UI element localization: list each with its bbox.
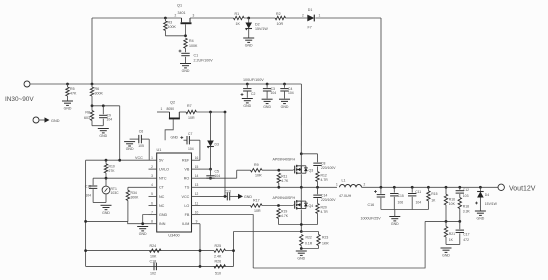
capacitor C5 104: [206, 169, 220, 179]
node ILIM rail lower: [199, 265, 202, 268]
svg-text:4.7R: 4.7R: [321, 210, 329, 214]
IC U1 body: [157, 148, 192, 238]
wire TS switch node: [200, 186, 337, 188]
svg-text:R20: R20: [321, 206, 327, 210]
svg-text:10R: 10R: [188, 116, 195, 120]
ground: [441, 248, 452, 258]
mosfet Q3 AP09N40SFH: [273, 154, 314, 174]
svg-text:Vout12V: Vout12V: [509, 185, 536, 192]
svg-text:Q2: Q2: [170, 100, 175, 104]
svg-text:103C: 103C: [111, 191, 120, 195]
svg-text:D1: D1: [308, 8, 313, 12]
resistor R8 603: [84, 106, 94, 126]
svg-text:C16: C16: [368, 203, 375, 207]
svg-text:R15: R15: [431, 192, 437, 196]
svg-text:R2: R2: [276, 12, 281, 16]
transistor Q1: [175, 4, 195, 36]
svg-text:R19: R19: [281, 210, 287, 214]
wire top-left drop to input rail: [91, 18, 93, 84]
svg-text:3.3K: 3.3K: [463, 209, 471, 213]
svg-text:C6: C6: [139, 130, 144, 134]
svg-text:7: 7: [151, 210, 153, 214]
wire vertical B Q2 to VCC pin: [224, 112, 226, 196]
svg-text:10K: 10K: [150, 255, 157, 259]
svg-text:UVLO: UVLO: [159, 168, 169, 172]
capacitor C7 104: [170, 132, 199, 151]
resistor R24 10K: [150, 244, 162, 259]
svg-text:R1: R1: [235, 12, 240, 16]
svg-text:C11: C11: [415, 190, 421, 194]
node vertical B bottom: [224, 195, 227, 198]
wire divider node: [425, 220, 461, 223]
resistor R20 4.7R: [316, 204, 328, 225]
svg-text:R3: R3: [168, 20, 173, 24]
svg-text:F7: F7: [308, 26, 312, 30]
capacitor C6 105: [130, 130, 150, 161]
transistor Q2 8050: [157, 100, 180, 140]
wire output rail: [381, 186, 498, 188]
resistor R22 0.1R: [300, 235, 313, 249]
svg-text:INN: INN: [159, 222, 166, 226]
wire Q2 emitter to R7: [179, 111, 186, 113]
wire ILIM drop: [199, 224, 201, 267]
svg-text:GND: GND: [139, 232, 147, 236]
wire Q4 source: [300, 210, 302, 232]
svg-text:15V/1W: 15V/1W: [485, 202, 498, 206]
svg-text:10R: 10R: [255, 174, 262, 178]
node R19 top: [277, 204, 280, 207]
resistor R1 1K: [234, 12, 245, 26]
resistor R5 47K: [66, 84, 77, 101]
svg-text:10: 10: [195, 210, 199, 214]
svg-text:104: 104: [107, 118, 113, 122]
svg-text:NC: NC: [159, 195, 165, 199]
wire input rail: [30, 83, 301, 85]
svg-text:GND: GND: [391, 222, 399, 226]
wire right vertical to output node: [380, 18, 382, 187]
svg-text:13: 13: [195, 183, 199, 187]
svg-text:220/100V: 220/100V: [321, 198, 336, 202]
svg-text:R8: R8: [85, 111, 90, 115]
svg-text:R11: R11: [281, 174, 287, 178]
svg-text:11: 11: [195, 201, 199, 205]
resistor R7 10R: [186, 104, 196, 120]
svg-text:5V: 5V: [159, 159, 164, 163]
wire current sense: [234, 231, 302, 233]
capacitor C10 104: [85, 178, 98, 202]
svg-text:R12: R12: [321, 174, 327, 178]
node ILIM rail upper: [199, 249, 202, 252]
wire R8 C9 bottom: [92, 125, 103, 127]
svg-text:12: 12: [195, 192, 199, 196]
svg-text:GND: GND: [297, 257, 305, 261]
ground: [137, 227, 148, 237]
svg-text:GND: GND: [477, 217, 485, 221]
svg-text:R4: R4: [189, 39, 194, 43]
label 100UF/100V bus: [243, 78, 264, 82]
svg-text:NTC: NTC: [159, 177, 167, 181]
svg-text:3401: 3401: [178, 11, 186, 15]
svg-text:104: 104: [215, 174, 221, 178]
svg-text:TS: TS: [185, 186, 190, 190]
capacitor C17 472: [456, 221, 470, 244]
svg-text:104: 104: [416, 200, 422, 204]
svg-text:5: 5: [151, 192, 153, 196]
ground: [242, 99, 253, 109]
resistor R34 300K: [126, 187, 139, 221]
node R5: [66, 83, 69, 86]
svg-text:27K: 27K: [109, 169, 116, 173]
svg-text:6: 6: [151, 201, 153, 205]
node C11: [411, 186, 414, 189]
svg-text:510: 510: [215, 271, 221, 275]
terminal input +: [24, 81, 30, 87]
resistor R23 1KR: [301, 232, 329, 249]
ground: [475, 211, 486, 221]
svg-text:100K: 100K: [168, 25, 177, 29]
svg-text:47K: 47K: [70, 91, 77, 95]
resistor R16 10K: [444, 187, 455, 221]
node C15: [393, 186, 396, 189]
ground: [98, 129, 109, 139]
svg-text:R5: R5: [70, 87, 75, 91]
wire source return: [279, 224, 318, 226]
capacitor C18 102: [150, 260, 157, 276]
wire rail R2 to D1: [286, 17, 308, 19]
pin 10 FB: [185, 210, 200, 217]
node R15: [427, 186, 430, 189]
resistor R17 10R: [251, 198, 263, 213]
ground: [62, 101, 73, 111]
svg-text:U1: U1: [157, 148, 162, 152]
svg-text:C17: C17: [463, 232, 469, 236]
resistor R6 300K: [90, 84, 103, 106]
svg-text:104: 104: [85, 194, 91, 198]
pin 5 NC: [149, 192, 165, 199]
diode D1 F7: [302, 8, 321, 30]
resistor R15 1K: [427, 187, 438, 209]
svg-text:2: 2: [151, 165, 153, 169]
wire top rail left segment: [92, 17, 182, 19]
inductor L1 47.0UH: [336, 178, 381, 197]
node Q1 base junction: [184, 34, 187, 37]
svg-text:1K: 1K: [431, 199, 436, 203]
svg-text:R17: R17: [253, 198, 260, 202]
pin 16 REF: [182, 156, 200, 163]
svg-text:14: 14: [195, 174, 199, 178]
svg-text:105: 105: [138, 144, 144, 148]
svg-text:10R: 10R: [254, 209, 261, 213]
svg-text:VCC: VCC: [182, 195, 190, 199]
svg-text:10R: 10R: [277, 22, 284, 26]
wire CT pin: [128, 186, 149, 188]
node C3: [266, 83, 269, 86]
svg-text:1: 1: [336, 183, 338, 187]
wire LO pin: [200, 205, 251, 207]
svg-text:10K: 10K: [449, 202, 456, 206]
node R11 top: [277, 169, 280, 172]
svg-text:Q1: Q1: [177, 4, 182, 8]
wire RO pin: [200, 170, 237, 178]
node R22 bottom: [300, 247, 303, 250]
svg-text:3: 3: [151, 174, 153, 178]
capacitor C12 103 with resistor R18 3.3K: [456, 187, 471, 221]
svg-text:GND: GND: [263, 105, 271, 109]
capacitor C9 104: [99, 106, 112, 126]
svg-text:R21: R21: [449, 232, 455, 236]
svg-text:D3: D3: [215, 142, 219, 146]
node switch node half bridge: [300, 186, 303, 189]
svg-text:16: 16: [195, 156, 199, 160]
resistor R9 10R: [251, 163, 263, 178]
svg-text:FB: FB: [185, 213, 190, 217]
capacitor C11 104: [408, 187, 421, 209]
ground: [124, 142, 135, 152]
svg-text:2.4K: 2.4K: [214, 255, 222, 259]
node R11 bottom: [277, 186, 280, 189]
wire R21 C17 bottom: [446, 244, 460, 246]
pin 9 ILIM: [182, 220, 200, 227]
capacitor C1 2.2UF/100V: [179, 48, 214, 63]
pin 1 5V: [149, 156, 165, 163]
pin 8 INN: [149, 220, 166, 227]
node source return: [300, 223, 303, 226]
resistor R11 4.7K: [277, 173, 289, 187]
node Q3 drain: [300, 152, 303, 155]
wire NTC node: [93, 177, 148, 179]
wire R8 node horizontal: [92, 105, 120, 107]
svg-text:4: 4: [151, 183, 153, 187]
wire rail R1 to D2 node: [244, 17, 275, 19]
node vertical B top: [224, 111, 227, 114]
wire bottom rail upper: [86, 250, 234, 252]
capacitor C14 220/100V: [313, 187, 336, 203]
node D2: [247, 17, 250, 20]
svg-text:C13: C13: [225, 189, 231, 193]
node R16: [445, 186, 448, 189]
svg-text:47.0UH: 47.0UH: [339, 194, 352, 198]
label VCC: [135, 156, 143, 160]
ground: [389, 210, 400, 227]
svg-text:2: 2: [302, 14, 304, 18]
resistor R19 4.7K: [277, 209, 289, 225]
ground: [279, 99, 290, 109]
wire R9 to Q3 gate: [262, 169, 294, 171]
svg-text:LO: LO: [184, 204, 189, 208]
ground: [180, 64, 191, 74]
node C9 top: [102, 104, 105, 107]
wire snubber top: [301, 153, 317, 155]
svg-text:ILIM: ILIM: [182, 222, 189, 226]
wire left vertical rail: [85, 160, 87, 266]
wire VCC pin: [200, 195, 227, 197]
svg-text:R7: R7: [187, 104, 192, 108]
node C12: [458, 186, 461, 189]
wire Q3 source: [300, 174, 302, 187]
svg-text:GND: GND: [99, 134, 107, 138]
ground: [101, 205, 112, 215]
svg-text:1: 1: [161, 107, 163, 111]
thermistor RT1 103C: [102, 178, 119, 202]
svg-text:C18: C18: [150, 260, 157, 264]
svg-text:GND: GND: [281, 105, 289, 109]
wire rail D1 to right corner: [315, 17, 381, 19]
wire VCC to pin1: [86, 159, 149, 161]
svg-text:R24: R24: [150, 244, 157, 248]
svg-text:100K: 100K: [189, 44, 198, 48]
svg-text:102: 102: [150, 271, 156, 275]
svg-text:106: 106: [398, 200, 404, 204]
label IN30~90V: [5, 96, 34, 103]
wire gate drive Q3: [237, 169, 251, 171]
pin 3 NTC: [149, 174, 167, 181]
svg-text:104: 104: [288, 91, 294, 95]
svg-text:1KR: 1KR: [322, 241, 329, 245]
svg-text:AP09N40SFH: AP09N40SFH: [273, 196, 296, 200]
svg-text:8: 8: [151, 220, 153, 224]
capacitor C15 106: [390, 187, 404, 209]
svg-text:15: 15: [195, 165, 199, 169]
svg-text:GND: GND: [102, 211, 110, 215]
zener D3: [207, 112, 219, 169]
svg-text:9: 9: [196, 220, 198, 224]
node left rail upper: [84, 249, 87, 252]
svg-text:4.7K: 4.7K: [281, 179, 289, 183]
svg-text:R25: R25: [215, 244, 222, 248]
svg-text:C10: C10: [85, 185, 91, 189]
wire top rail mid segment: [190, 17, 234, 19]
svg-text:15V/1W: 15V/1W: [255, 27, 268, 31]
svg-text:GND: GND: [244, 195, 252, 199]
terminal Vout: [498, 184, 504, 190]
svg-text:D4: D4: [485, 193, 489, 197]
svg-text:GND: GND: [170, 136, 178, 140]
svg-text:R16: R16: [449, 197, 455, 201]
svg-text:R34: R34: [131, 191, 137, 195]
ground arrow VCC: [238, 194, 252, 199]
node R10 bottom: [105, 177, 108, 180]
resistor R21 1K: [444, 221, 455, 244]
svg-text:1K: 1K: [449, 238, 454, 242]
svg-text:NC: NC: [159, 204, 165, 208]
svg-text:R9: R9: [254, 163, 259, 167]
node R6: [91, 83, 94, 86]
wire pin7 GND: [141, 215, 148, 226]
svg-text:R23: R23: [322, 235, 328, 239]
label Vout12V: [509, 185, 536, 192]
node R10 top: [105, 159, 108, 162]
node C2: [246, 83, 249, 86]
svg-text:1: 1: [319, 14, 321, 18]
svg-text:L1: L1: [342, 178, 346, 182]
svg-text:GND: GND: [245, 44, 253, 48]
svg-text:1000UF/25V: 1000UF/25V: [361, 216, 382, 220]
svg-text:220/100V: 220/100V: [321, 166, 336, 170]
svg-text:C7: C7: [188, 132, 192, 136]
wire FB pin: [200, 215, 253, 268]
svg-text:R22: R22: [306, 235, 312, 239]
svg-text:GND: GND: [182, 69, 190, 73]
node VB junction: [209, 168, 212, 171]
wire VB pin: [200, 168, 211, 170]
svg-text:1: 1: [151, 156, 153, 160]
svg-text:104: 104: [271, 91, 277, 95]
svg-text:U3400: U3400: [168, 234, 179, 238]
resistor R12 4.7R: [316, 172, 328, 188]
resistor R2 10R: [275, 12, 285, 26]
wire feedback right drop: [253, 221, 425, 268]
svg-text:R26: R26: [215, 260, 222, 264]
node C4: [283, 83, 286, 86]
resistor R26 510: [214, 260, 226, 276]
svg-text:Q4: Q4: [309, 204, 314, 208]
node R8 top: [91, 104, 94, 107]
capacitor C2 100UF/100V: [241, 84, 256, 98]
ground: [262, 99, 273, 109]
ground: [296, 251, 307, 261]
wire output filter bottom: [381, 209, 429, 211]
node R22 top: [300, 230, 303, 233]
svg-text:Q3: Q3: [309, 169, 314, 173]
svg-text:RO: RO: [184, 177, 190, 181]
pin 14 RO: [184, 174, 200, 181]
svg-text:104: 104: [188, 147, 194, 151]
svg-text:100UF/100V: 100UF/100V: [243, 78, 264, 82]
svg-text:1K: 1K: [236, 22, 241, 26]
pin 12 VCC: [182, 192, 200, 199]
svg-text:472: 472: [463, 238, 469, 242]
svg-text:GND: GND: [126, 147, 134, 151]
node VCC drop: [118, 159, 121, 162]
ground: [243, 38, 254, 48]
svg-text:C2: C2: [251, 92, 255, 96]
wire bottom rail lower: [86, 265, 234, 267]
svg-text:8050: 8050: [167, 107, 175, 111]
pin 15 VB: [184, 165, 200, 172]
wire C7 to REF pin: [199, 140, 201, 160]
svg-text:IN30~90V: IN30~90V: [5, 96, 34, 103]
svg-text:2.2UF/100V: 2.2UF/100V: [194, 58, 214, 62]
zener D2 15V/1W: [245, 18, 268, 38]
svg-text:300K: 300K: [131, 195, 140, 199]
capacitor C16 1000UF/25V: [361, 187, 386, 220]
svg-text:REF: REF: [182, 159, 190, 163]
resistor R25 2.4K: [214, 244, 226, 259]
svg-text:C1: C1: [194, 54, 199, 58]
svg-text:GND: GND: [51, 119, 60, 123]
svg-text:3: 3: [193, 14, 195, 18]
capacitor C4 104: [280, 84, 293, 99]
svg-text:GND: GND: [243, 104, 251, 108]
svg-text:0.1R: 0.1R: [305, 241, 313, 245]
pin 11 LO: [184, 201, 200, 208]
wire UVLO rail: [84, 220, 148, 224]
svg-text:R18: R18: [463, 204, 469, 208]
terminal input ground: [33, 117, 60, 123]
svg-text:4.7R: 4.7R: [321, 178, 329, 182]
svg-text:VB: VB: [184, 168, 189, 172]
node snubber mid: [316, 186, 319, 189]
pin 6 NC: [149, 201, 165, 208]
svg-text:GND: GND: [442, 254, 450, 258]
resistor R4 100K: [184, 38, 198, 48]
resistor R10 27K: [104, 160, 115, 178]
pin 2 UVLO: [149, 165, 170, 172]
svg-text:603: 603: [84, 116, 90, 120]
node D4: [479, 186, 482, 189]
capacitor C3 104: [263, 84, 276, 99]
wire R25 R26 junction to sense: [232, 232, 235, 267]
